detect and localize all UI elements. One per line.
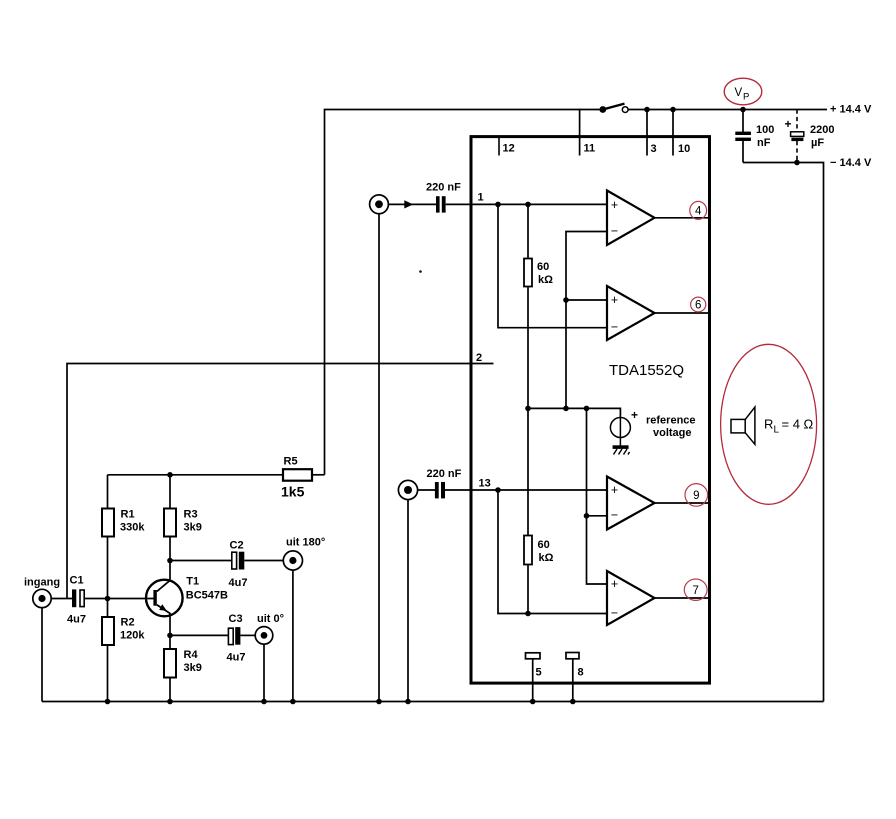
capacitor 220nF ch1 xyxy=(436,196,446,212)
RCA jack J2 input ch2 xyxy=(398,480,417,499)
resistor R2 xyxy=(102,599,114,702)
node ref 60k junction xyxy=(525,406,531,412)
svg-text:uit 180°: uit 180° xyxy=(286,537,325,549)
node ground R4 xyxy=(167,699,173,705)
wire emitter to C3 xyxy=(170,634,228,636)
op-amp A4 xyxy=(607,571,655,625)
wire collector xyxy=(169,561,171,581)
node ground pin8 xyxy=(570,699,576,705)
wire jack J2 ground drop xyxy=(407,500,409,702)
svg-text:+: + xyxy=(611,293,618,307)
svg-text:7: 7 xyxy=(692,585,698,597)
node ground J2 xyxy=(405,699,411,705)
node pin1 60k junction xyxy=(525,202,531,208)
svg-text:100: 100 xyxy=(756,124,774,136)
resistor R4 xyxy=(164,635,176,701)
svg-text:ingang: ingang xyxy=(24,577,60,589)
label 60k lower xyxy=(538,539,554,564)
ground symbol xyxy=(613,445,630,454)
label R4 xyxy=(184,649,199,661)
wire jack J1 ground drop xyxy=(378,214,380,702)
label pin 8 xyxy=(578,667,584,679)
svg-text:T1: T1 xyxy=(186,576,199,588)
svg-text:C1: C1 xyxy=(70,575,84,587)
RCA jack uit 0 xyxy=(255,627,273,645)
svg-text:11: 11 xyxy=(584,143,596,155)
svg-text:60: 60 xyxy=(538,539,550,551)
resistor R3 xyxy=(164,475,176,561)
node pin10 rail junction xyxy=(670,107,676,113)
svg-text:R3: R3 xyxy=(184,509,198,521)
svg-text:−: − xyxy=(611,508,618,522)
label T1 xyxy=(186,576,199,588)
svg-text:−: − xyxy=(611,606,618,620)
node emitter junction xyxy=(167,633,173,639)
reference voltage source xyxy=(610,408,638,446)
wire pin 3 drop xyxy=(646,110,648,156)
label 60k upper xyxy=(537,261,553,286)
pin 8 pad and wire xyxy=(566,653,579,702)
svg-text:nF: nF xyxy=(757,137,771,149)
label R1 330k xyxy=(120,522,145,534)
svg-text:reference: reference xyxy=(646,415,696,427)
wire reference rail xyxy=(528,408,620,418)
wire collector to C2 xyxy=(170,560,231,562)
svg-text:L: L xyxy=(774,425,780,436)
label 2200 uF xyxy=(810,124,834,149)
label R3 3k9 xyxy=(184,522,202,534)
svg-text:R5: R5 xyxy=(284,456,298,468)
svg-text:12: 12 xyxy=(503,143,515,155)
svg-text:120k: 120k xyxy=(120,630,145,642)
label pin 13 xyxy=(479,478,491,490)
label R1 xyxy=(121,509,135,521)
label C1 4u7 xyxy=(67,614,86,626)
label 220 nF ch1 xyxy=(426,182,461,194)
wire C2 to uit180 xyxy=(244,560,283,562)
node A3 inverting junction xyxy=(584,513,590,519)
wire A2 non-inverting input xyxy=(566,299,607,301)
pin 11 label xyxy=(584,143,596,155)
label +14.4 V xyxy=(830,104,872,116)
svg-text:3k9: 3k9 xyxy=(184,662,202,674)
svg-text:9: 9 xyxy=(693,490,699,502)
capacitor C3 xyxy=(228,627,240,645)
svg-text:220 nF: 220 nF xyxy=(426,182,461,194)
label R5 1k5 xyxy=(281,484,305,500)
svg-text:−: − xyxy=(611,224,618,238)
label C3 xyxy=(229,613,243,625)
label pin 2 xyxy=(476,352,482,364)
node ground pin5 xyxy=(530,699,536,705)
wire pin 2 to input node xyxy=(67,364,494,599)
svg-text:+: + xyxy=(785,117,792,131)
svg-text:V: V xyxy=(735,87,743,99)
pin 12 xyxy=(499,138,515,156)
svg-text:+: + xyxy=(611,198,618,212)
label pin 5 xyxy=(536,667,542,679)
label -14.4 V xyxy=(830,157,872,169)
IC U1 TDA1552Q body xyxy=(471,137,710,684)
switch S1 xyxy=(599,104,628,113)
speaker load ellipse xyxy=(721,344,817,504)
wire J1 to C4 xyxy=(389,203,436,205)
wire input stage supply rail xyxy=(108,474,284,476)
pin 5 pad and wire xyxy=(526,653,541,702)
svg-text:4: 4 xyxy=(695,206,702,218)
label C2 4u7 xyxy=(229,577,248,589)
svg-text:2200: 2200 xyxy=(810,124,834,136)
op-amp A3 xyxy=(607,477,655,530)
label R2 xyxy=(121,617,135,629)
node ref A3 junction xyxy=(584,406,590,412)
transistor T1 xyxy=(146,580,183,617)
svg-text:C3: C3 xyxy=(229,613,243,625)
wire A2 inverting input feedback from pin1 xyxy=(498,204,607,327)
node ground R2 xyxy=(105,699,111,705)
op-amp A2 xyxy=(607,286,655,340)
node 60k A4 junction xyxy=(525,611,531,617)
label TDA1552Q xyxy=(609,362,684,379)
pin 9 circled xyxy=(685,484,708,507)
capacitor 100 nF xyxy=(735,110,751,163)
svg-text:13: 13 xyxy=(479,478,491,490)
wire ingang ground drop xyxy=(41,608,43,702)
svg-text:R4: R4 xyxy=(184,649,199,661)
node pin1 feedback junction xyxy=(495,202,501,208)
wire A3 inverting input xyxy=(587,515,608,517)
wire A1 inverting input down to reference rail xyxy=(566,232,607,409)
node pin3 rail junction xyxy=(644,107,650,113)
label R4 3k9 xyxy=(184,662,202,674)
resistor R5 xyxy=(283,469,325,481)
wire A2 output xyxy=(655,312,710,314)
label uit 180 xyxy=(286,537,325,549)
wire top rail left with corner down to R5 xyxy=(325,110,602,475)
node collector junction xyxy=(167,558,173,564)
supply node VP xyxy=(724,78,762,105)
svg-text:5: 5 xyxy=(536,667,542,679)
svg-text:220 nF: 220 nF xyxy=(427,468,462,480)
wire pin 10 drop xyxy=(672,110,674,156)
node ground uit0 xyxy=(261,699,267,705)
node pin13 feedback junction xyxy=(495,487,501,493)
label R5 xyxy=(284,456,298,468)
svg-text:+ 14.4 V: + 14.4 V xyxy=(830,104,872,116)
node 2200uF bottom junction xyxy=(794,160,800,166)
svg-text:+: + xyxy=(611,577,618,591)
label C3 4u7 xyxy=(227,652,246,664)
wire C1 to base xyxy=(85,598,154,600)
pin 7 circled xyxy=(684,579,707,600)
svg-text:µF: µF xyxy=(811,137,824,149)
svg-text:+: + xyxy=(631,408,638,422)
wire top rail right segment xyxy=(628,109,827,111)
svg-text:6: 6 xyxy=(695,300,701,312)
wire uit0 ground drop xyxy=(263,644,265,701)
label 100 nF xyxy=(756,124,774,149)
svg-text:4u7: 4u7 xyxy=(67,614,86,626)
node R3 top junction xyxy=(167,472,173,478)
wire uit180 ground drop xyxy=(292,570,294,701)
label RL = 4 ohm xyxy=(764,417,814,436)
label 220 nF ch2 xyxy=(427,468,462,480)
wire A4 inverting input feedback from pin13 xyxy=(498,490,607,614)
label uit 0 xyxy=(257,613,284,625)
label R3 xyxy=(184,509,198,521)
pin 10 label xyxy=(678,143,690,155)
node A2 non-inverting junction xyxy=(563,297,569,303)
node ground J1 xyxy=(376,699,382,705)
svg-text:R: R xyxy=(764,417,773,432)
arrow signal direction xyxy=(404,200,413,208)
wire ingang to C1 xyxy=(51,598,72,600)
wire -14.4 rail with corner down right side xyxy=(743,163,824,702)
wire C5 to pin 13 and op-amp A3 xyxy=(445,489,607,491)
svg-text:P: P xyxy=(743,92,749,103)
pin 6 circled xyxy=(691,297,706,312)
node ref A1 junction xyxy=(563,406,569,412)
label R2 120k xyxy=(120,630,145,642)
svg-text:kΩ: kΩ xyxy=(539,552,554,564)
wire emitter xyxy=(169,614,171,636)
svg-text:− 14.4 V: − 14.4 V xyxy=(830,157,872,169)
svg-text:330k: 330k xyxy=(120,522,145,534)
svg-text:voltage: voltage xyxy=(653,427,692,439)
label C1 xyxy=(70,575,84,587)
svg-text:−: − xyxy=(611,320,618,334)
label C2 xyxy=(230,540,244,552)
wire A4 output xyxy=(655,597,710,599)
svg-text:1k5: 1k5 xyxy=(281,484,305,500)
svg-text:uit 0°: uit 0° xyxy=(257,613,284,625)
label pin 1 xyxy=(478,192,484,204)
svg-text:4u7: 4u7 xyxy=(229,577,248,589)
svg-text:BC547B: BC547B xyxy=(186,590,228,602)
label BC547B xyxy=(186,590,228,602)
svg-text:R2: R2 xyxy=(121,617,135,629)
RCA jack ingang xyxy=(33,589,51,607)
resistor 60k upper xyxy=(524,204,532,408)
svg-text:3k9: 3k9 xyxy=(184,522,202,534)
svg-text:+: + xyxy=(611,483,618,497)
svg-text:kΩ: kΩ xyxy=(538,274,553,286)
wire J2 to C5 xyxy=(418,489,435,491)
svg-text:= 4 Ω: = 4 Ω xyxy=(782,417,814,432)
wire bottom ground rail xyxy=(42,701,824,703)
svg-text:TDA1552Q: TDA1552Q xyxy=(609,362,684,379)
svg-text:R1: R1 xyxy=(121,509,135,521)
capacitor C1 xyxy=(72,589,84,607)
svg-text:4u7: 4u7 xyxy=(227,652,246,664)
RCA jack uit 180 xyxy=(283,551,302,570)
artifact speck xyxy=(419,270,422,273)
wire A1 output xyxy=(655,217,710,219)
svg-text:3: 3 xyxy=(651,143,657,155)
resistor R1 xyxy=(102,475,114,599)
capacitor 220nF ch2 xyxy=(435,482,445,498)
node VP rail junction xyxy=(740,107,746,113)
svg-text:60: 60 xyxy=(537,261,549,273)
wire C3 to uit0 xyxy=(240,634,255,636)
node base bias junction xyxy=(105,596,111,602)
svg-text:C2: C2 xyxy=(230,540,244,552)
wire ref rail down to A4 non-inverting input xyxy=(587,408,608,584)
wire pin 11 drop xyxy=(579,109,581,156)
node ground uit180 xyxy=(290,699,296,705)
capacitor 2200 uF electrolytic xyxy=(785,110,804,163)
wire C4 to pin 1 and op-amp A1 xyxy=(446,203,607,205)
svg-text:2: 2 xyxy=(476,352,482,364)
svg-text:8: 8 xyxy=(578,667,584,679)
svg-text:1: 1 xyxy=(478,192,484,204)
capacitor C2 xyxy=(232,552,245,570)
resistor 60k lower xyxy=(524,408,532,613)
wire A3 output xyxy=(655,502,710,504)
RCA jack J1 input ch1 xyxy=(370,195,389,214)
label reference voltage xyxy=(646,415,696,440)
speaker icon xyxy=(731,407,755,444)
pin 3 label xyxy=(651,143,657,155)
op-amp A1 xyxy=(607,191,655,246)
label ingang xyxy=(24,577,60,589)
pin 4 circled xyxy=(690,201,707,219)
svg-text:10: 10 xyxy=(678,143,690,155)
